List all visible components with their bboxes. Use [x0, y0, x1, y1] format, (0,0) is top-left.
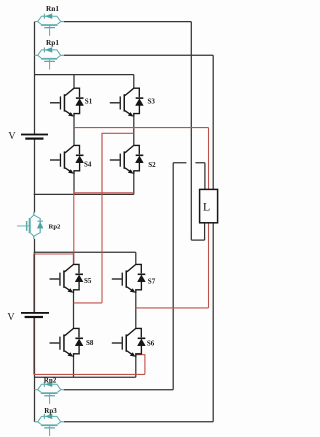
- wire S5 collector lead: [73, 252, 75, 264]
- wire S1-S4 midpoint: [73, 117, 75, 146]
- load L: [200, 189, 218, 222]
- wire S5-S8 midpoint: [73, 293, 75, 329]
- svg-text:S8: S8: [86, 339, 94, 347]
- transistor S5: [50, 264, 84, 293]
- wire load top lead: [204, 163, 206, 190]
- svg-text:Rp3: Rp3: [44, 407, 57, 415]
- wire bridge1 bottom rail: [34, 193, 134, 195]
- wire S7-S6 midpoint: [135, 293, 137, 329]
- svg-text:S1: S1: [85, 98, 93, 106]
- switch Rn1: [35, 14, 64, 36]
- battery V1: [21, 134, 48, 140]
- wire red bridge1 bottom overlay: [74, 192, 102, 194]
- switch Rn2: [35, 382, 64, 404]
- wire red bridge2 top rail overlay: [34, 253, 74, 255]
- svg-text:Rn2: Rn2: [44, 377, 57, 385]
- wire Rn2 row: [64, 389, 173, 391]
- wire S3-S2 midpoint: [133, 117, 135, 146]
- svg-text:L: L: [203, 200, 210, 214]
- svg-text:S6: S6: [147, 339, 155, 347]
- svg-text:S3: S3: [148, 98, 156, 106]
- wire left rail battery1 to Rp2: [34, 139, 36, 213]
- wire Rn1 row to right vertical: [64, 21, 191, 23]
- wire load-top row with crossover gap: [173, 162, 205, 164]
- wire right rail Rp1-row to Rp3-row: [212, 55, 214, 422]
- wire red S4-bottom to S5-top: [73, 191, 75, 265]
- wire S4 emitter lead: [73, 174, 75, 195]
- svg-text:S7: S7: [148, 278, 156, 286]
- wire red left rail overlay: [33, 254, 35, 375]
- wire left rail Rp2 to bridge2 corner: [34, 239, 36, 254]
- svg-text:S5: S5: [84, 277, 92, 285]
- transistor S7: [112, 264, 146, 293]
- wire right mid vertical Rn2-row to load-top row: [172, 163, 174, 390]
- battery V2: [21, 312, 49, 318]
- transistor S3: [110, 88, 144, 117]
- wire red vertical x102 between bridges: [101, 133, 103, 303]
- wire Rp1 row to right rail: [64, 54, 213, 56]
- wire Rp3 row: [64, 421, 213, 423]
- wire S1 collector lead: [73, 75, 75, 89]
- wire S6 emitter lead: [135, 357, 137, 377]
- wire left rail battery2 upper: [34, 254, 36, 313]
- wire red right vertical to load top: [208, 128, 210, 190]
- svg-text:Rp1: Rp1: [46, 38, 59, 47]
- transistor S6: [112, 328, 146, 357]
- wire red load bottom vertical: [208, 222, 210, 308]
- wire red loop around S2: [102, 133, 134, 193]
- svg-text:V: V: [8, 131, 16, 142]
- transistor S8: [50, 328, 84, 357]
- wire red corner up to S6 emitter: [136, 355, 145, 375]
- wire left rail battery2 lower: [34, 317, 36, 422]
- wire red to S5-S8 midpoint: [74, 302, 103, 304]
- wire red bottom row: [34, 373, 145, 375]
- wire left rail upper: [34, 22, 36, 134]
- wire S8 emitter lead: [73, 357, 75, 377]
- svg-text:V: V: [7, 312, 15, 323]
- wire S3 collector lead: [133, 75, 135, 89]
- switch Rp2: [17, 212, 43, 239]
- svg-text:S2: S2: [148, 161, 156, 169]
- wire load bottom lead: [204, 222, 206, 240]
- wire jog below load: [191, 239, 204, 241]
- wire red S1-S4 midpoint row to load top: [74, 127, 209, 129]
- transistor S2: [110, 145, 144, 174]
- switch Rp3: [35, 414, 64, 436]
- wire S7 collector lead: [135, 252, 137, 264]
- wire bridge2 top rail: [34, 251, 136, 253]
- svg-text:S4: S4: [84, 161, 92, 169]
- wire red row to S7-S6 midpoint: [136, 307, 209, 309]
- transistor S1: [50, 88, 84, 117]
- wire vertical Rn1-row down to below load: [190, 22, 192, 241]
- transistor S4: [50, 145, 84, 174]
- wire S2 emitter lead: [133, 174, 135, 195]
- wire bridge2 bottom rail: [35, 376, 136, 378]
- svg-text:Rp2: Rp2: [49, 223, 62, 230]
- svg-text:Rn1: Rn1: [46, 4, 59, 13]
- switch Rp1: [35, 47, 64, 69]
- wire bridge1 top rail: [35, 74, 134, 76]
